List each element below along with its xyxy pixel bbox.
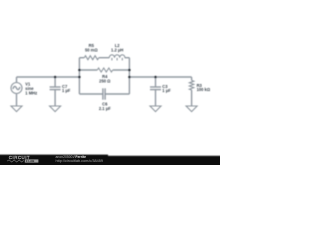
inductor L2 <box>109 55 125 61</box>
footer logo LAB box <box>25 159 39 163</box>
footer logo resistor zigzag <box>7 160 24 162</box>
resistor R5 <box>84 56 99 60</box>
wire R4 branch left <box>79 69 97 71</box>
node left vertical of parallel block <box>78 58 80 94</box>
capacitor C7 <box>50 77 61 106</box>
svg-text:250 Ω: 250 Ω <box>99 79 111 84</box>
svg-text:100 kΩ: 100 kΩ <box>197 87 211 92</box>
wire top branch left stub <box>79 57 84 59</box>
ground for C7 <box>50 106 61 112</box>
junction node at C7 tap <box>54 76 57 79</box>
junction node at C3 tap <box>154 76 157 79</box>
junction node block right at R4 branch <box>128 69 131 72</box>
resistor R3 <box>189 77 193 106</box>
label C3 <box>162 84 171 93</box>
svg-text:LAB: LAB <box>28 159 34 163</box>
wire left rail V1 to block <box>17 76 80 78</box>
label R4 <box>99 74 111 84</box>
svg-text:1.2 μH: 1.2 μH <box>111 48 123 53</box>
junction node block left at rail <box>78 76 81 79</box>
node right vertical of parallel block <box>128 58 130 94</box>
ground for R3 <box>186 106 197 112</box>
wire top branch right stub <box>125 57 130 59</box>
voltage source V1 <box>11 77 22 106</box>
svg-text:50 mΩ: 50 mΩ <box>85 48 98 53</box>
label C7 <box>62 84 71 93</box>
wire C6 branch right <box>105 93 129 95</box>
capacitor C3 <box>150 77 161 106</box>
svg-text:1 MHz: 1 MHz <box>25 91 37 96</box>
svg-text:http://circuitlab.com/c/38459: http://circuitlab.com/c/38459 <box>56 159 104 163</box>
label R5 <box>85 43 98 53</box>
capacitor C6 <box>103 88 105 99</box>
ground for V1 <box>11 106 22 112</box>
label C6 <box>99 102 111 112</box>
wire R4 branch right <box>113 69 130 71</box>
ground for C3 <box>150 106 161 112</box>
junction node block left at R4 branch <box>78 69 81 72</box>
label R3 <box>197 83 211 92</box>
svg-text:1 μF: 1 μF <box>62 88 71 93</box>
wire top branch middle <box>99 57 110 59</box>
junction node block right at rail <box>128 76 131 79</box>
label V1 <box>25 82 37 96</box>
svg-text:1 μF: 1 μF <box>162 88 171 93</box>
wire right rail block to R3 <box>129 76 191 78</box>
wire C6 branch left <box>79 93 103 95</box>
resistor R4 <box>97 68 112 72</box>
svg-text:CIRCUIT: CIRCUIT <box>9 155 30 160</box>
svg-text:2.1 μF: 2.1 μF <box>99 106 111 111</box>
footer black bar <box>0 155 224 167</box>
label L2 <box>111 43 123 53</box>
